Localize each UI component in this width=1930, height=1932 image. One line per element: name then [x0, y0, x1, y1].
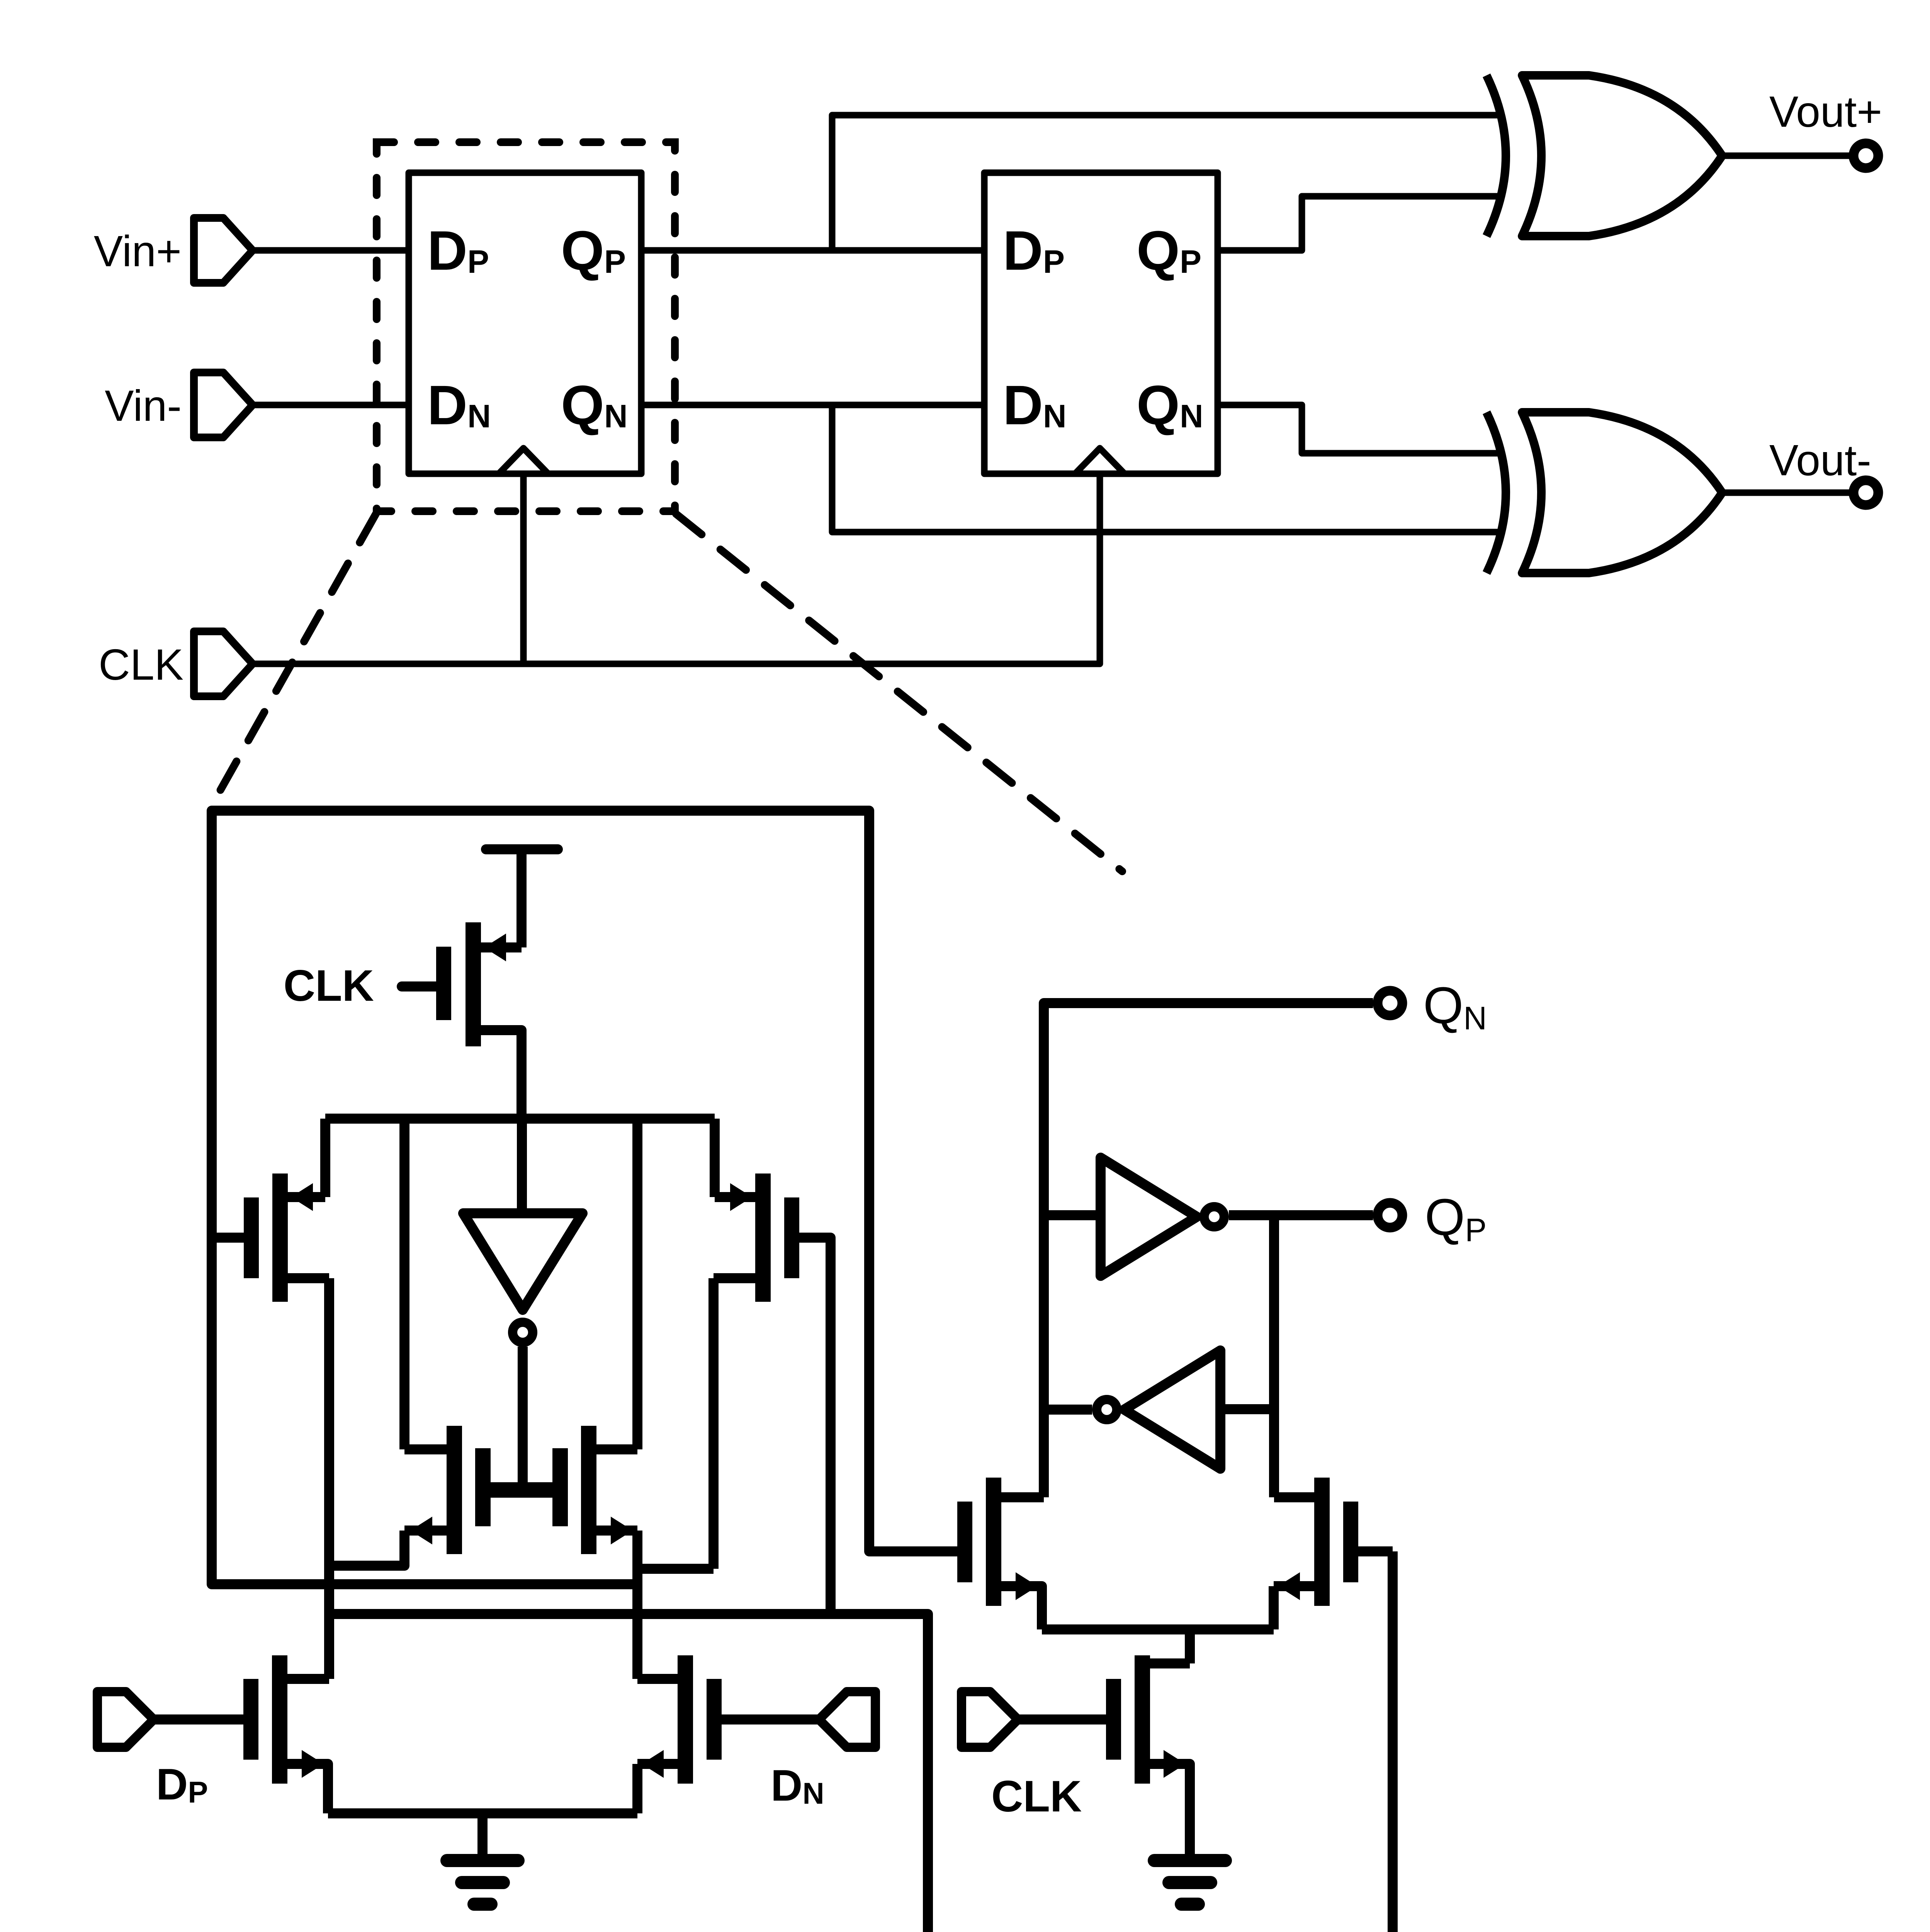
- inverter U7 triangle: [1124, 1350, 1220, 1469]
- M2 gate lead: [212, 1233, 244, 1243]
- input port CLK: [194, 631, 253, 696]
- svg-text:Vout-: Vout-: [1769, 436, 1871, 485]
- M1 source arrow: [484, 934, 506, 961]
- wire Vin+ to DP of U1: [251, 247, 409, 254]
- wire rail to M4 channel: [399, 1119, 409, 1449]
- M3 gate plate: [784, 1197, 799, 1278]
- M5 source lead: [596, 1526, 637, 1536]
- wire rail to M5 channel: [632, 1119, 642, 1449]
- tail rail node: [325, 1114, 715, 1124]
- input port CLK (M10): [962, 1692, 1018, 1747]
- M4 drain lead: [404, 1444, 447, 1454]
- M5 gate plate: [552, 1448, 568, 1526]
- M6 source arrow: [302, 1750, 324, 1778]
- VDD stub: [486, 844, 558, 854]
- dashed zoom line left: [211, 514, 376, 808]
- U2 clock triangle: [1075, 448, 1125, 474]
- wire QP2 to XOR U3 input B: [1218, 196, 1504, 250]
- wire VDD to M1 source: [516, 849, 527, 947]
- M9 drain lead: [1274, 1492, 1314, 1502]
- wire U4 output: [1722, 490, 1852, 496]
- M5 drain lead: [596, 1444, 637, 1454]
- M10 drain lead: [1150, 1658, 1190, 1668]
- inverter U6 input wire: [1044, 1210, 1101, 1220]
- M1 gate lead: [402, 981, 436, 992]
- transistor M10 (CLK NMOS) channel: [1135, 1655, 1150, 1784]
- transistor M8 (left NMOS of output latch) channel: [986, 1478, 1001, 1606]
- M7 source arrow: [642, 1750, 664, 1778]
- M5 source arrow: [611, 1517, 633, 1544]
- terminal QP: [1378, 1203, 1402, 1228]
- M3 gate lead to node A feedback: [799, 1238, 831, 1614]
- inverter U7 input wire: [1220, 1404, 1274, 1414]
- terminal Vout+: [1854, 143, 1878, 168]
- svg-text:CLK: CLK: [99, 640, 183, 689]
- M4 gate plate: [475, 1448, 491, 1526]
- terminal Vout-: [1854, 480, 1878, 505]
- M8 drain lead: [1001, 1492, 1044, 1502]
- transistor M9 (right NMOS of output latch) channel: [1314, 1478, 1330, 1606]
- M9 gate plate: [1343, 1502, 1358, 1582]
- U5 output bubble: [513, 1322, 533, 1342]
- input port Vin-: [194, 372, 253, 437]
- node X wire (box outline: left PMOS gate / right drain node / M10 gate): [212, 811, 957, 1584]
- input port DN: [819, 1692, 875, 1747]
- M8 source lead: [1001, 1586, 1042, 1629]
- M3 drain lead: [714, 1278, 755, 1569]
- M2 source arrow: [291, 1183, 313, 1211]
- M4/M5 gate crossbar: [488, 1482, 556, 1498]
- wire QP1 to DP2: [641, 247, 984, 254]
- svg-text:Vin-: Vin-: [105, 381, 182, 430]
- M6 gate plate: [243, 1679, 258, 1760]
- M8 gate plate: [957, 1502, 972, 1582]
- wire QN1 to DN2: [641, 402, 984, 408]
- M4 source arrow: [410, 1517, 432, 1544]
- M7 gate lead: [722, 1714, 819, 1725]
- node A wire to M3 gate and M10 gate: [329, 1551, 1393, 1932]
- wire QN1 branch down to XOR U4 input B: [832, 405, 1504, 532]
- M2 drain lead / node A vertical: [288, 1278, 329, 1679]
- wire rail to inverter U5 input: [517, 1119, 527, 1213]
- svg-text:CLK: CLK: [284, 961, 374, 1010]
- svg-text:Vin+: Vin+: [94, 227, 182, 276]
- M1 source lead with arrow: [481, 942, 522, 952]
- input port DP: [97, 1692, 154, 1747]
- dashed zoom line right: [676, 514, 1122, 871]
- M2 gate plate: [244, 1197, 259, 1278]
- wire rail to M3 source: [715, 1119, 755, 1197]
- U1 clock triangle: [499, 448, 548, 474]
- wire tail to ground: [477, 1813, 488, 1861]
- M6 drain lead: [287, 1674, 329, 1684]
- M1 gate plate: [436, 947, 451, 1020]
- wire U5 output to M4/M5 gates: [518, 1347, 528, 1490]
- M9 source lead: [1274, 1586, 1314, 1629]
- ground symbol right: [1154, 1861, 1225, 1904]
- transistor M2 (left PMOS) channel: [272, 1173, 288, 1302]
- M6 gate lead: [155, 1714, 243, 1725]
- XOR gate U4: [1487, 412, 1722, 573]
- transistor M7 (DN input NMOS) channel: [678, 1655, 693, 1784]
- wire QN2 to XOR U4 input A: [1218, 405, 1504, 453]
- M10 source lead: [1150, 1764, 1190, 1861]
- wire U1 clock stem: [520, 474, 527, 664]
- latch tail rail: [1042, 1624, 1274, 1634]
- M6 source lead: [287, 1764, 328, 1813]
- wire rail to M10 drain: [1185, 1629, 1195, 1663]
- wire QP1 branch up to XOR U3 input A: [832, 115, 1504, 250]
- wire U3 output: [1722, 153, 1852, 159]
- M10 source arrow: [1164, 1750, 1186, 1778]
- wire U6 output to QP: [1229, 1210, 1373, 1220]
- M10 gate lead: [1019, 1714, 1106, 1725]
- tail rail of input pair: [328, 1808, 637, 1818]
- wire U7 output: [1044, 1405, 1092, 1415]
- wire QN node / left latch rail: [1044, 1003, 1373, 1497]
- M10 gate plate: [1106, 1679, 1121, 1760]
- M7 source lead: [637, 1764, 678, 1813]
- U6 output bubble: [1204, 1207, 1224, 1227]
- terminal QN: [1378, 991, 1402, 1015]
- M3 source arrow: [730, 1183, 752, 1211]
- inverter U6 triangle: [1101, 1158, 1197, 1276]
- transistor M6 (DP input NMOS) channel: [272, 1655, 287, 1784]
- transistor M1 (CLK tail PMOS) channel: [466, 922, 481, 1046]
- M4 source lead: [404, 1526, 447, 1536]
- transistor M3 (right PMOS) channel: [755, 1173, 771, 1302]
- wire CLK distribution: [251, 474, 1100, 664]
- input port Vin+: [194, 218, 253, 283]
- inverter U5 triangle: [463, 1213, 583, 1310]
- flip-flop U2 box: [984, 173, 1218, 474]
- M5 source to node B: [637, 1531, 714, 1679]
- svg-text:Vout+: Vout+: [1769, 87, 1882, 136]
- XOR gate U3: [1487, 75, 1722, 236]
- M7 drain lead: [637, 1674, 678, 1684]
- dashed detail box around U1: [377, 142, 675, 511]
- M8 source arrow: [1016, 1572, 1038, 1600]
- right latch rail: [1269, 1215, 1279, 1497]
- ground symbol left: [447, 1861, 518, 1904]
- U7 output bubble: [1097, 1400, 1117, 1420]
- M9 gate lead: [1358, 1546, 1393, 1556]
- transistor M5 (right latch NMOS) channel: [581, 1426, 596, 1554]
- M9 source arrow: [1278, 1572, 1300, 1600]
- flip-flop U1 box: [409, 173, 641, 474]
- svg-text:CLK: CLK: [991, 1772, 1082, 1821]
- M1 drain lead: [481, 1030, 522, 1119]
- wire rail to M2 source: [288, 1119, 325, 1197]
- transistor M4 (left latch NMOS) channel: [447, 1426, 462, 1554]
- wire Vin- to DN of U1: [251, 402, 409, 408]
- M4 source to node A: [329, 1531, 404, 1566]
- M7 gate plate: [707, 1679, 722, 1760]
